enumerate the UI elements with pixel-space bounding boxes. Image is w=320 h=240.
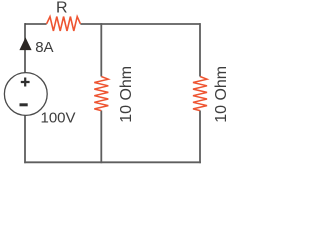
- svg-text:8A: 8A: [35, 39, 53, 56]
- wire bottom: [24, 161, 201, 163]
- wire top-right segment: [80, 23, 200, 25]
- svg-text:R: R: [56, 0, 68, 17]
- wire middle branch lower: [100, 111, 102, 164]
- resistor R (horizontal zigzag): [47, 17, 81, 31]
- current arrow 8A: [19, 37, 31, 50]
- minus sign: [20, 103, 28, 106]
- wire right branch lower: [199, 111, 201, 164]
- wire right branch upper: [199, 23, 201, 76]
- wire left upper: [24, 23, 26, 73]
- wire left lower: [24, 115, 26, 163]
- svg-text:100V: 100V: [41, 110, 76, 127]
- svg-text:10 Ohm: 10 Ohm: [118, 66, 135, 123]
- wire top-left segment: [25, 23, 47, 25]
- svg-text:10 Ohm: 10 Ohm: [213, 66, 228, 123]
- plus sign: [21, 78, 30, 87]
- voltage source V1 circle: [4, 73, 47, 116]
- wire middle branch upper: [100, 23, 102, 76]
- resistor R3 (right vertical zigzag): [193, 77, 207, 111]
- resistor R2 (middle vertical zigzag): [94, 77, 108, 111]
